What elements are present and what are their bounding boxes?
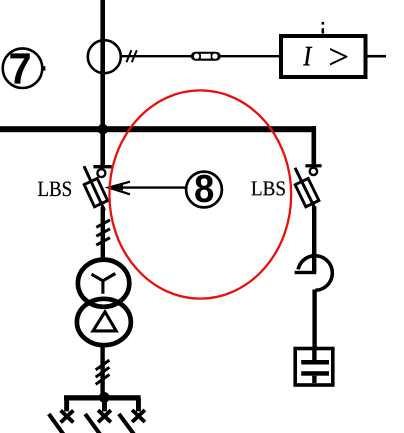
LBS contact circle right [310, 168, 317, 175]
LBS contact bar left [93, 165, 111, 168]
wire: CT secondary horizontal to relay [120, 55, 281, 57]
arrow from 8 to left LBS [109, 186, 186, 188]
fuse rectangle left [84, 178, 107, 206]
cable marks group 1 [96, 220, 110, 245]
instrument transformer CT circle [88, 40, 121, 73]
LBS contact circle left [97, 169, 105, 177]
wire: left branch below fuse [101, 207, 105, 261]
fused blade left [84, 166, 105, 210]
breaker arc [298, 256, 332, 291]
wire: relay output stub [367, 55, 386, 58]
feeder stub 3 [136, 398, 141, 411]
feeder stub 1 [64, 398, 69, 411]
fuse link symbol [191, 52, 221, 61]
feeder diagonal 3 [119, 414, 134, 433]
feeder stub 2 [102, 398, 107, 411]
double slash on secondary wire [126, 50, 136, 62]
LBS contact bar right [305, 164, 321, 167]
fused blade right [295, 168, 315, 208]
junction dot on LV bar [99, 392, 110, 403]
feeder diagonal 1 [49, 414, 64, 433]
label LBS left [38, 182, 71, 197]
capacitor plate bottom [301, 371, 329, 376]
delta symbol [93, 312, 116, 331]
wire: incoming feeder vertical [100, 0, 105, 166]
feeder diagonal 2 [85, 414, 100, 433]
capacitor box [295, 349, 333, 386]
capacitor bottom lead [312, 376, 316, 383]
capacitor top lead [312, 349, 316, 363]
wire: below transformer [100, 346, 104, 396]
X mark 1 [61, 410, 74, 422]
transformer T1 primary circle [78, 260, 129, 307]
transformer T1 secondary circle [77, 299, 131, 345]
callout circle 7 [3, 48, 43, 88]
fuse rectangle right [295, 178, 319, 206]
red highlight ellipse [109, 90, 291, 298]
wire: right branch between LBS and breaker [312, 207, 316, 273]
X mark 2 [98, 410, 111, 422]
wire: breaker to capacitor box [312, 290, 316, 349]
LV distribution bar [64, 395, 141, 400]
dotted trip line above relay [322, 22, 325, 25]
callout circle 8 [186, 172, 222, 208]
junction dot at bus [98, 124, 109, 135]
wire: right branch riser from bus corner [312, 126, 317, 165]
nub on circle 7 [43, 66, 46, 70]
cable marks group 2 [96, 360, 110, 384]
capacitor plate top [301, 360, 329, 365]
wye symbol [92, 274, 116, 294]
label LBS right [251, 181, 284, 195]
X mark 3 [132, 410, 145, 422]
bus [0, 126, 316, 132]
breaker bar [295, 271, 317, 274]
relay box U1 "I >" [281, 36, 366, 77]
